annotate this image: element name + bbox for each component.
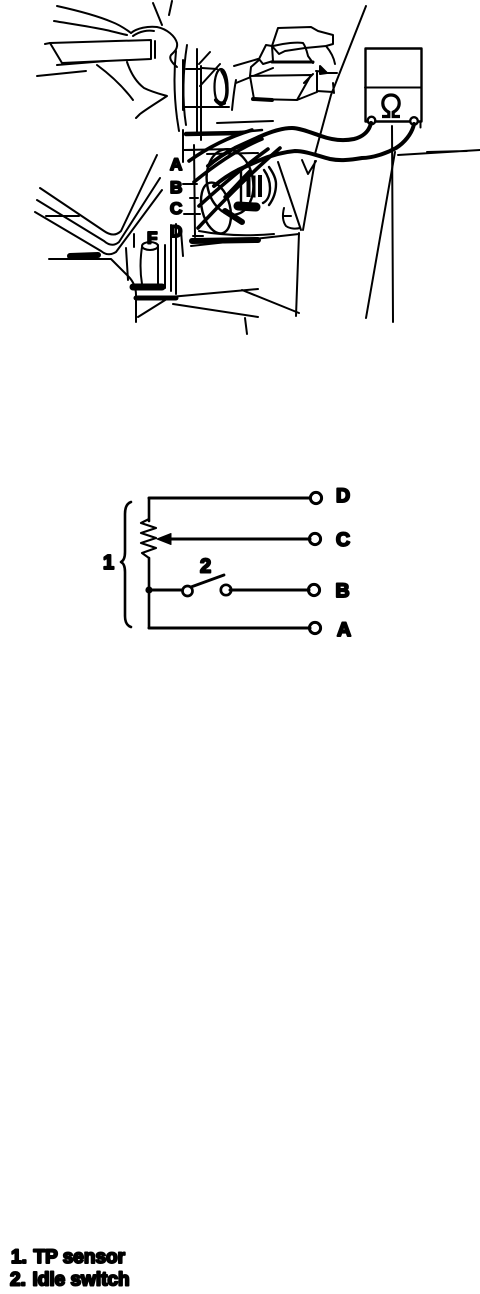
harness dark bar bbox=[70, 255, 98, 256]
node junction B bbox=[145, 586, 152, 593]
svg-text:2.: 2. bbox=[10, 1270, 26, 1291]
boss ellipse bbox=[215, 69, 228, 105]
harness band line 1 bbox=[40, 155, 157, 235]
ladder rungs bbox=[183, 69, 229, 236]
wire bottom sweep bbox=[199, 231, 274, 235]
svg-text:F: F bbox=[147, 229, 157, 248]
harness tangle stroke 3 bbox=[199, 149, 268, 206]
svg-text:D: D bbox=[170, 222, 182, 241]
right long diagonal bbox=[366, 152, 395, 318]
connector body bbox=[240, 169, 242, 203]
terminal C bbox=[309, 533, 320, 544]
triangle lines below connector bbox=[278, 160, 316, 230]
wire left vertical bus bbox=[148, 498, 151, 628]
right horizontal line bbox=[398, 150, 480, 155]
resistor 1 (TP sensor potentiometer) bbox=[141, 519, 156, 558]
wire terminal A bbox=[149, 627, 310, 630]
terminal A bbox=[309, 622, 320, 633]
air cleaner lower body bbox=[250, 75, 311, 100]
hose curve lower bbox=[54, 21, 127, 35]
ohm symbol bbox=[382, 95, 400, 117]
hose curve upper left bbox=[57, 6, 131, 33]
s-curve below pipe bbox=[127, 62, 167, 118]
svg-text:A: A bbox=[337, 619, 351, 641]
right step bracket bbox=[297, 71, 334, 100]
test lead wire lower bbox=[214, 124, 414, 186]
bracket top diagonals bbox=[153, 1, 220, 86]
harness band line 3 bbox=[35, 190, 162, 254]
harness tangle stroke 4 bbox=[198, 148, 280, 228]
svg-text:C: C bbox=[336, 529, 350, 551]
test lead wire upper bbox=[208, 123, 371, 166]
pocket shape bbox=[283, 208, 300, 229]
extra tangle stroke bbox=[225, 171, 250, 197]
air cleaner left pocket bbox=[259, 45, 273, 64]
harness tangle stroke 2 bbox=[194, 139, 262, 182]
svg-text:1: 1 bbox=[103, 552, 114, 574]
air cleaner mid bar bbox=[272, 61, 313, 64]
wire junction to switch bbox=[149, 589, 182, 592]
harness band line 2 bbox=[37, 178, 160, 245]
brace label 1 bbox=[121, 502, 131, 627]
ohmmeter box bbox=[366, 49, 422, 122]
svg-text:A: A bbox=[170, 155, 182, 174]
svg-text:Idle switch: Idle switch bbox=[33, 1270, 130, 1291]
svg-text:B: B bbox=[170, 178, 182, 197]
idle switch 2 bbox=[183, 586, 193, 596]
air cleaner lid bbox=[272, 27, 333, 54]
harness tangle stroke 1 bbox=[189, 130, 252, 161]
svg-text:2: 2 bbox=[200, 556, 211, 578]
engine bay illustration bbox=[35, 1, 480, 334]
svg-text:C: C bbox=[170, 199, 182, 218]
bottom wedge lines bbox=[191, 234, 299, 246]
grommet loop bbox=[196, 179, 236, 236]
dark bar 1 bbox=[133, 284, 162, 291]
right vertical line bbox=[392, 126, 393, 322]
wire terminal D bbox=[149, 497, 310, 500]
pipe tube bbox=[50, 40, 151, 63]
bracket top verticals bbox=[175, 51, 179, 131]
dark bar 2 bbox=[136, 296, 176, 301]
connector boot oval bbox=[202, 146, 259, 219]
fender curve bbox=[49, 259, 136, 322]
harness band tick bbox=[46, 215, 79, 217]
curve to lower area bbox=[97, 65, 133, 100]
wiper arrow bbox=[168, 538, 310, 541]
bump arch bbox=[131, 27, 177, 67]
a-pillar diagonal bbox=[315, 6, 366, 154]
link lines to air cleaner bbox=[234, 59, 273, 83]
circuit schematic bbox=[121, 492, 322, 633]
svg-text:B: B bbox=[336, 580, 350, 602]
harness right verticals bbox=[126, 234, 134, 280]
svg-text:TP sensor: TP sensor bbox=[34, 1247, 126, 1268]
vertical lines right of cylinder bbox=[171, 224, 176, 294]
air cleaner right flap bbox=[326, 46, 335, 64]
wire switch to terminal B bbox=[230, 589, 309, 592]
svg-text:D: D bbox=[336, 485, 350, 507]
idle screw cylinder bbox=[141, 245, 166, 288]
terminal B bbox=[308, 584, 319, 595]
curve right of boss bbox=[232, 80, 236, 110]
air cleaner inner ridge bbox=[273, 43, 313, 63]
shelf thick bbox=[186, 133, 240, 134]
svg-text:1.: 1. bbox=[11, 1247, 27, 1268]
ladder verticals bbox=[181, 60, 195, 256]
ohmmeter terminals bbox=[368, 117, 376, 125]
dark bar under bracket bbox=[192, 240, 258, 241]
connector bottom dark bar bbox=[238, 206, 256, 207]
line under pipe bbox=[37, 61, 106, 76]
terminal D bbox=[310, 492, 321, 503]
